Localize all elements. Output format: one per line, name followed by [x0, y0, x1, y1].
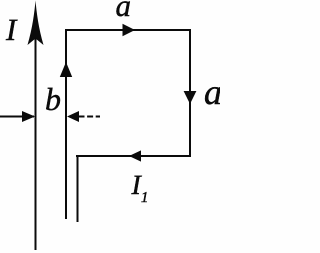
- loop bottom side: [76, 155, 191, 157]
- dimension arrow pointing left at loop lead: [67, 111, 79, 122]
- svg-text:I: I: [5, 12, 18, 47]
- right lead from bottom side: [77, 156, 79, 222]
- loop top side: [65, 29, 191, 31]
- dimension arrow pointing right at wire: [22, 111, 35, 122]
- loop left side / left lead: [65, 29, 67, 219]
- arrow on left side (current up): [60, 62, 72, 77]
- arrow on top side (current right): [123, 24, 136, 37]
- arrow on right side (current down): [184, 91, 197, 104]
- svg-text:b: b: [45, 81, 61, 117]
- svg-text:a: a: [204, 72, 220, 112]
- svg-text:I1: I1: [131, 170, 149, 206]
- svg-text:a: a: [116, 0, 132, 23]
- dimension line b: right dashed segment: [79, 116, 101, 118]
- dimension line b: left segment: [0, 116, 34, 118]
- arrowhead on wire I (current direction up): [28, 1, 44, 46]
- wire I (long straight vertical wire): [35, 20, 37, 250]
- loop right side: [189, 29, 191, 157]
- arrow on bottom side (current left): [129, 150, 141, 161]
